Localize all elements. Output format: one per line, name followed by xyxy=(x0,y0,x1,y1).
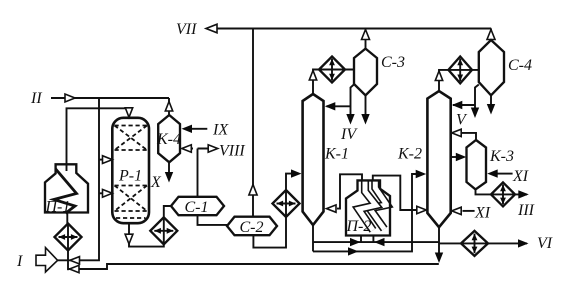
wire П-1 bottom to exchanger Е1 xyxy=(66,213,68,225)
column К-4 xyxy=(158,115,180,162)
svg-text:С-4: С-4 xyxy=(508,57,532,74)
svg-text:II: II xyxy=(30,90,42,107)
hollow arrow right quench 2 xyxy=(103,189,113,197)
wire К-2 overhead to exchanger Е5 and С-4 xyxy=(439,70,479,91)
wire riser С-2 to VII header xyxy=(252,29,254,217)
svg-text:VIII: VIII xyxy=(219,143,245,160)
wire gas downcomer to feed junction xyxy=(58,98,100,260)
hollow arrow up К-4 riser xyxy=(165,102,172,112)
svg-text:Р-1: Р-1 xyxy=(118,168,142,185)
svg-text:VII: VII xyxy=(176,21,197,38)
wire П-2 right coil bottom pipe xyxy=(372,236,374,243)
svg-text:С-2: С-2 xyxy=(240,219,264,236)
furnace П-2 xyxy=(346,180,390,235)
solid arrow down К-2 bottoms xyxy=(435,253,443,264)
hollow arrow down on Р-1 effluent xyxy=(125,234,133,244)
solid arrow right into К-3 xyxy=(456,153,467,161)
solid arrow down С-4 bottoms xyxy=(487,104,495,115)
heat exchanger Е2 xyxy=(150,217,177,244)
heat exchanger Е3 xyxy=(273,190,300,217)
svg-text:X: X xyxy=(150,174,162,191)
separator С-2 xyxy=(227,217,277,236)
wire П-2 left coil return to К-1 xyxy=(337,174,362,208)
svg-text:К-3: К-3 xyxy=(489,148,514,165)
hollow arrow left on recycle return xyxy=(70,265,80,272)
coil 1 of П-2 xyxy=(359,180,376,230)
solid arrow left into П-2 right coil xyxy=(374,238,385,246)
wire К-3 bottoms to exchanger Е6 and III xyxy=(476,189,528,194)
heat exchanger Е5 xyxy=(448,57,472,84)
svg-text:XI: XI xyxy=(474,205,491,222)
hollow arrow right on II line xyxy=(65,94,75,102)
svg-text:К-1: К-1 xyxy=(324,146,349,163)
solid arrow left IX into К-4 xyxy=(182,125,193,133)
hollow arrow up on С-2 riser xyxy=(249,185,257,196)
column К-3 xyxy=(467,140,487,189)
hollow arrow left into К-4 xyxy=(182,145,192,152)
solid arrow right into П-2 left coil xyxy=(350,238,361,246)
solid arrow right VI product xyxy=(518,239,529,247)
hollow arrow right VIII xyxy=(208,145,218,152)
heat exchanger Е4 xyxy=(319,57,345,83)
catalyst bed lines Р-1 xyxy=(115,126,148,219)
wire VII header xyxy=(207,28,491,30)
hollow arrow into VII xyxy=(206,24,217,33)
hollow arrow left into К-1 reboiler return xyxy=(327,205,337,212)
wire reboiler line К-1 / К-2 through П-2 xyxy=(313,241,439,243)
wire П-2 left coil bottom pipe xyxy=(360,236,362,243)
wire IX stub into К-4 xyxy=(192,128,207,130)
wire С-1 riser to VIII tee xyxy=(184,149,208,197)
solid arrow down IV xyxy=(346,114,354,125)
hollow arrow left XI into К-2 xyxy=(452,207,462,214)
svg-text:III: III xyxy=(517,202,535,219)
column К-2 xyxy=(427,91,450,227)
heat exchanger Е6 xyxy=(491,182,515,206)
hollow arrow up С-4 riser xyxy=(487,30,495,40)
wire XI stub into К-3 xyxy=(497,173,513,175)
solid arrow left XI into К-3 xyxy=(487,169,498,177)
hollow arrow left on feed junction line xyxy=(70,257,80,264)
wire С-1 drain to С-2 xyxy=(198,215,228,225)
hollow arrow up К-2 overhead xyxy=(435,71,442,81)
wire К-2 bottoms to exchanger Е7 and VI xyxy=(439,242,527,244)
wire К-3 overhead to К-2 xyxy=(453,133,476,140)
hollow arrow right quench 1 xyxy=(103,156,113,164)
coil of П-1 xyxy=(54,169,77,213)
wire quench 2 into Р-1 xyxy=(99,192,103,194)
feed block arrow I xyxy=(36,248,58,272)
wire exchanger Е2 to С-1 xyxy=(164,206,171,217)
wire С-3 bottoms reflux to К-1 and IV draw xyxy=(327,85,354,115)
wire riser С-4 to header xyxy=(490,29,492,41)
svg-text:VI: VI xyxy=(537,235,553,252)
svg-text:С-1: С-1 xyxy=(185,199,209,216)
solid arrow right into К-2 feed xyxy=(416,170,427,178)
wire XI stub into К-2 xyxy=(463,210,475,212)
svg-text:П-2: П-2 xyxy=(346,218,372,235)
wire II feed line xyxy=(51,97,169,99)
heat exchanger Е1 xyxy=(55,224,82,251)
svg-text:К-4: К-4 xyxy=(156,131,181,148)
coil 2 of П-2 xyxy=(370,180,387,229)
heat exchanger Е7 xyxy=(461,231,488,256)
wire Р-1 effluent to exchanger Е2 xyxy=(129,223,164,247)
svg-text:XI: XI xyxy=(512,168,529,185)
solid arrow left reflux into К-1 xyxy=(325,102,336,110)
wire К-2 bottoms downcomer xyxy=(438,227,440,253)
separator С-4 xyxy=(479,40,504,95)
solid arrow right mid feed line xyxy=(348,247,359,255)
solid arrow left reflux into К-2 xyxy=(452,101,463,109)
wire С-4 bottom product arrow xyxy=(490,95,492,104)
solid arrow down V xyxy=(471,108,479,119)
svg-text:С-3: С-3 xyxy=(381,54,405,71)
hollow arrow up К-1 overhead xyxy=(309,71,316,81)
separator С-3 xyxy=(354,49,377,96)
svg-text:IV: IV xyxy=(340,126,358,143)
solid arrow down X xyxy=(165,172,173,183)
wire К-1 overhead to exchanger Е4 and С-3 xyxy=(313,70,354,95)
wire К-4 riser to II line xyxy=(168,98,170,115)
reactor Р-1 xyxy=(112,118,149,223)
hollow arrow left К-3 overhead into К-2 xyxy=(452,129,462,136)
wire К-1 bottoms to К-2 feed xyxy=(313,174,424,251)
wire С-3 bottom product arrow xyxy=(365,95,367,114)
svg-text:I: I xyxy=(16,253,23,270)
separator С-1 xyxy=(171,197,224,215)
wire С-4 bottoms reflux to К-2 and V draw xyxy=(453,85,479,109)
wire riser С-3 to header xyxy=(365,29,367,49)
hollow arrow up С-3 riser xyxy=(362,30,370,40)
svg-text:П-1: П-1 xyxy=(45,199,71,216)
solid arrow down С-3 bottoms xyxy=(361,114,369,125)
wire П-2 right coil return to К-2 xyxy=(373,176,417,210)
wire П-1 transfer line to Р-1 xyxy=(67,108,130,171)
hollow arrow right into К-2 reboiler return xyxy=(417,206,427,213)
wire С-2 bottoms to exchanger Е3 and К-1 feed xyxy=(253,174,299,248)
hollow arrow down into Р-1 xyxy=(125,108,132,118)
svg-text:IX: IX xyxy=(212,122,229,139)
wire quench 1 into Р-1 xyxy=(99,159,103,161)
column К-1 xyxy=(303,94,324,225)
furnace П-1 xyxy=(45,164,88,212)
svg-text:К-2: К-2 xyxy=(397,146,422,163)
solid arrow right III product xyxy=(518,190,529,198)
solid arrow right К-1 feed xyxy=(291,169,302,177)
wire recycle bottoms return line xyxy=(68,264,439,269)
wire X product from К-4 xyxy=(168,162,170,172)
wire К-1 bottoms downcomer xyxy=(312,225,314,251)
wire exchanger Е1 to feed junction xyxy=(67,251,69,271)
wire К-2 side draw to К-3 xyxy=(451,156,457,158)
